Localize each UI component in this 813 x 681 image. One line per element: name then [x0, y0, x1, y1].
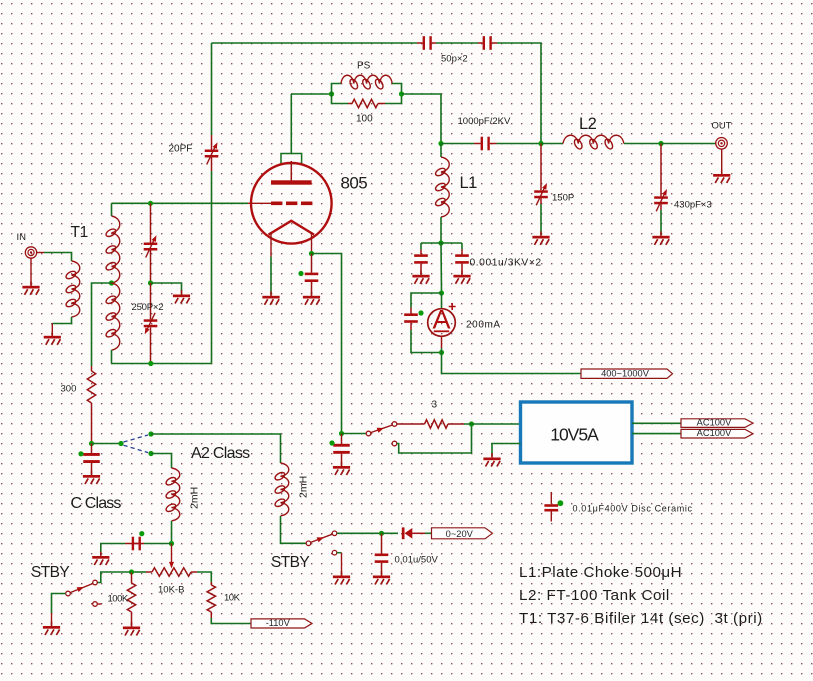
svg-text:IN: IN: [17, 232, 27, 243]
wire diode to 0~20V flag: [425, 532, 432, 534]
svg-text:L2: FT-100 Tank Coil: L2: FT-100 Tank Coil: [519, 587, 670, 604]
junction keying node: [339, 431, 344, 436]
wire PSU output 2: [632, 433, 681, 435]
inductor 2mH left choke: [172, 468, 180, 521]
variable capacitor 20PF: [205, 135, 219, 171]
junction stray dot near bias cap: [78, 451, 83, 456]
wire L1 to bypass node: [440, 217, 442, 243]
junction output node: [658, 141, 663, 146]
capacitor bias bypass: [83, 444, 100, 475]
wire 430pF to ground: [660, 210, 662, 235]
inductor 2mH right choke: [281, 463, 289, 516]
wire PSU input 2: [492, 444, 521, 457]
svg-text:250P×2: 250P×2: [132, 302, 164, 313]
svg-text:C Class: C Class: [71, 495, 122, 512]
node STBY left common: [66, 591, 71, 596]
svg-text:0,01u/50V: 0,01u/50V: [395, 555, 439, 566]
svg-text:AC100V: AC100V: [697, 418, 732, 428]
variable capacitor 150P: [534, 144, 548, 206]
wire resistor3 to PSU: [464, 423, 521, 425]
wire bias tap: [92, 283, 112, 366]
ground keying bypass: [333, 462, 350, 476]
wire T1 secondary bottom lead: [111, 350, 113, 364]
wire PS left riser: [332, 84, 342, 95]
wire cathode to keying line: [312, 254, 342, 434]
ground bypass right: [453, 270, 470, 284]
svg-text:400~1000V: 400~1000V: [601, 369, 650, 379]
ground T1 primary: [44, 331, 61, 345]
wire plate to PS: [291, 93, 331, 95]
ground 250P mid: [173, 290, 190, 304]
wire STBY lower contact to ground: [341, 553, 343, 575]
wire grid row: [112, 202, 249, 204]
junction 3ohm out: [469, 421, 474, 426]
ground OUT: [713, 170, 730, 184]
tube 805 anode: [290, 161, 292, 181]
wire 1000pF to tank node: [497, 143, 542, 145]
wire bypass left drop: [420, 243, 422, 250]
svg-text:10K: 10K: [224, 593, 241, 604]
ground IN connector: [22, 281, 39, 295]
wire choke node to coupling cap: [144, 543, 172, 545]
net label -110V: [251, 618, 312, 628]
node switch 3ohm upper contact: [392, 422, 397, 427]
junction stray dot near keying cap: [329, 440, 334, 445]
wire coupling cap to ground: [101, 544, 125, 556]
wire pot node to STBY: [97, 572, 131, 583]
junction tank node: [538, 141, 543, 146]
node selector contact A2: [148, 431, 153, 436]
wire pot right lead: [197, 572, 211, 582]
wire T1 primary bottom: [52, 317, 71, 324]
svg-text:A2 Class: A2 Class: [191, 445, 250, 462]
ground bias bypass: [83, 471, 100, 485]
wire PSU output 1: [632, 422, 681, 424]
wire top rail right segment: [497, 43, 541, 144]
power supply 10V5A box: [521, 402, 633, 463]
resistor PS 100: [348, 103, 385, 105]
svg-text:0.01μF400V Disc Ceramic: 0.01μF400V Disc Ceramic: [573, 504, 693, 514]
junction choke / coupling cap: [169, 541, 174, 546]
junction PS left: [329, 91, 334, 96]
wire A2 contact to choke: [151, 434, 281, 463]
junction selector common: [118, 441, 123, 446]
wire choke to pot node: [171, 521, 173, 544]
junction stray dot near shunt cap: [418, 310, 423, 315]
wire meter shunt bottom: [411, 330, 442, 353]
wire meter top lead: [441, 293, 443, 309]
wire STBY to diode node: [337, 532, 382, 534]
capacitor 50p×2 (second): [478, 36, 497, 50]
capacitor legend disc ceramic: [550, 492, 552, 504]
wire pot wiper: [171, 544, 173, 564]
svg-text:150P: 150P: [552, 193, 574, 204]
svg-text:T1: T1: [71, 224, 88, 241]
node switch 3ohm common: [366, 431, 371, 436]
tube 805 cathode: [269, 221, 315, 235]
connector OUT: [716, 138, 728, 150]
wire IN to T1 primary: [44, 253, 72, 262]
ground left cathode: [262, 291, 279, 305]
wire T1 primary ground stem: [51, 324, 53, 336]
svg-text:200mA: 200mA: [466, 320, 501, 331]
ground STBY left: [43, 622, 60, 636]
svg-text:0~20V: 0~20V: [446, 529, 474, 539]
wire PS right riser: [392, 84, 402, 95]
ground PSU input: [483, 453, 500, 467]
wire 150P to ground: [540, 204, 542, 235]
resistor 10K: [207, 582, 215, 618]
wire PS bottom right: [385, 94, 402, 104]
wire keying node to switch: [342, 433, 367, 435]
node STBY left contact upper: [93, 580, 98, 585]
capacitor 0.001u/3KV left: [414, 250, 428, 275]
wire OUT ground stem: [721, 149, 723, 174]
wire bias node to selector: [92, 443, 122, 445]
svg-text:430pF×3: 430pF×3: [674, 200, 712, 211]
switch STBY right blade: [311, 534, 333, 542]
variable capacitor 430pF×3: [654, 144, 668, 212]
ground STBY right: [333, 571, 350, 585]
svg-text:A: A: [432, 305, 450, 335]
tube 805 cathode pin left: [270, 233, 272, 257]
wire meter bottom join: [441, 348, 443, 353]
junction plate node: [438, 141, 443, 146]
wire 10K to -110V flag: [211, 618, 251, 624]
net label 400~1000V: [581, 369, 673, 379]
ground 0.01u cap: [373, 571, 390, 585]
wire top rail left segment: [212, 42, 418, 44]
wire plate node to L1: [440, 144, 442, 158]
wire pot left lead: [132, 571, 147, 573]
resistor 100K: [127, 572, 135, 626]
svg-text:STBY: STBY: [271, 554, 309, 571]
node STBY right contact upper: [332, 531, 337, 536]
svg-text:300: 300: [61, 384, 77, 395]
wire PS bottom left: [332, 94, 349, 104]
wire plate top cap feed: [290, 94, 292, 154]
switch class selector dashed linkage: [124, 435, 149, 453]
ammeter A 200mA: [428, 303, 456, 336]
node STBY right common: [306, 541, 311, 546]
svg-text:OUT: OUT: [712, 121, 732, 132]
junction 250P mid: [148, 280, 153, 285]
inductor L2: [563, 135, 624, 143]
ground 150P: [532, 231, 549, 245]
svg-text:10V5A: 10V5A: [550, 425, 599, 445]
variable capacitor 250P×2 upper: [144, 203, 158, 283]
svg-text:50p×2: 50p×2: [441, 54, 468, 65]
wire diode node to diode: [382, 532, 399, 534]
ground cathode bypass: [303, 291, 320, 305]
potentiometer 10K-B: [146, 571, 152, 573]
tube 805 cathode pin right: [311, 233, 313, 254]
svg-text:T1: T37-6 Bifiler 14t (sec) 3: T1: T37-6 Bifiler 14t (sec) 3t (pri): [519, 610, 763, 627]
junction pot left node: [129, 569, 134, 574]
svg-text:20PF: 20PF: [169, 144, 193, 155]
svg-text:L1:Plate Choke 500μH: L1:Plate Choke 500μH: [519, 564, 682, 581]
junction bypass node: [438, 240, 443, 245]
junction meter bottom: [439, 350, 444, 355]
wire bypass node down: [440, 243, 443, 293]
wire output node to OUT: [661, 143, 716, 145]
tube 805 grid dashes: [271, 202, 282, 206]
tube 805 envelope: [251, 163, 332, 244]
switch 3ohm blade: [371, 425, 393, 433]
wire between 50p caps: [436, 42, 478, 44]
wire left cathode to ground: [270, 257, 272, 296]
wire choke to STBY switch: [281, 516, 307, 543]
wire PS to plate node: [402, 94, 442, 144]
junction bias node: [89, 441, 94, 446]
wire T1 secondary top lead: [111, 203, 113, 216]
ground bypass left: [412, 270, 429, 284]
node STBY right contact lower: [332, 550, 337, 555]
net label AC100V lower: [681, 428, 753, 438]
junction stray dot above coupling cap: [139, 531, 144, 536]
svg-text:100K: 100K: [108, 594, 129, 605]
wire grid bottom row: [112, 363, 212, 365]
wire meter bottom lead: [441, 336, 443, 348]
svg-text:3: 3: [432, 400, 438, 411]
wire 250P mid to ground: [151, 283, 182, 294]
node switch 3ohm lower contact: [392, 441, 397, 446]
wire L2 to output node: [624, 143, 661, 145]
ground coupling cap: [92, 552, 109, 566]
inductor T1 secondary lower half: [112, 283, 120, 350]
tube 805 top cap: [281, 154, 302, 164]
svg-text:-110V: -110V: [266, 618, 291, 628]
capacitor meter shunt: [404, 308, 418, 331]
junction meter top: [439, 290, 444, 295]
wire 3ohm bypass: [397, 424, 472, 453]
wire meter to HV flag: [442, 353, 581, 374]
junction stray dot near cathode cap: [298, 271, 303, 276]
svg-text:STBY: STBY: [31, 564, 69, 581]
svg-text:100: 100: [356, 114, 373, 125]
junction bottom row / 250P: [148, 361, 153, 366]
capacitor 0.01u/50V: [375, 533, 389, 574]
capacitor 1000pF/2KV: [474, 137, 497, 151]
ground 430pF: [652, 231, 669, 245]
capacitor cathode bypass: [305, 254, 319, 296]
wire C contact to choke: [151, 454, 172, 469]
junction diode node: [379, 531, 384, 536]
wire STBY left ground stem: [51, 613, 53, 626]
junction right cathode: [309, 251, 314, 256]
node STBY left contact lower: [93, 602, 98, 607]
svg-text:1000pF/2KV: 1000pF/2KV: [458, 116, 511, 127]
junction PS right: [399, 91, 404, 96]
switch STBY left blade: [70, 584, 92, 593]
connector IN: [25, 247, 44, 258]
svg-text:L2: L2: [579, 115, 597, 133]
resistor 300: [87, 366, 95, 444]
svg-text:PS: PS: [357, 61, 371, 72]
wire neutralization vertical lower: [211, 171, 213, 364]
capacitor 50p×2 (first): [417, 36, 436, 50]
wire tank node to L2: [541, 143, 563, 145]
inductor L1: [441, 157, 449, 217]
diode D1: [402, 527, 405, 539]
wire plate node to 1000pF: [441, 143, 474, 145]
ground 100K: [123, 622, 140, 636]
junction T1 secondary tap: [109, 280, 114, 285]
capacitor 0.001u/3KV right: [455, 250, 469, 275]
capacitor keying bypass: [333, 434, 350, 466]
svg-text:AC100V: AC100V: [697, 428, 732, 438]
wire grid red lead into tube: [248, 202, 271, 204]
inductor T1 primary: [72, 261, 80, 317]
capacitor coupling: [125, 537, 144, 551]
wire meter shunt top: [411, 293, 442, 308]
resistor 3: [397, 423, 425, 425]
svg-text:805: 805: [341, 174, 368, 193]
wire IN connector ground stem: [30, 258, 32, 286]
net label AC100V upper: [681, 418, 753, 428]
svg-text:2mH: 2mH: [189, 487, 201, 509]
wire bypass caps bar: [421, 242, 462, 244]
variable capacitor 250P×2 lower: [144, 283, 158, 364]
inductor PS coil: [341, 75, 392, 83]
net label 0~20V: [432, 528, 493, 539]
wire STBY left common to ground: [52, 594, 66, 614]
junction legend dot: [558, 500, 564, 506]
svg-text:L1: L1: [460, 174, 478, 192]
svg-text:0.001u/3KV×2: 0.001u/3KV×2: [470, 258, 542, 269]
wire neutralization vertical upper: [211, 43, 213, 135]
wire bypass right drop: [461, 243, 463, 250]
svg-text:10K-B: 10K-B: [158, 585, 184, 596]
inductor T1 secondary upper half: [112, 216, 120, 283]
junction grid / 250P top: [148, 201, 153, 206]
svg-text:2mH: 2mH: [298, 476, 310, 498]
node selector contact C: [148, 451, 153, 456]
